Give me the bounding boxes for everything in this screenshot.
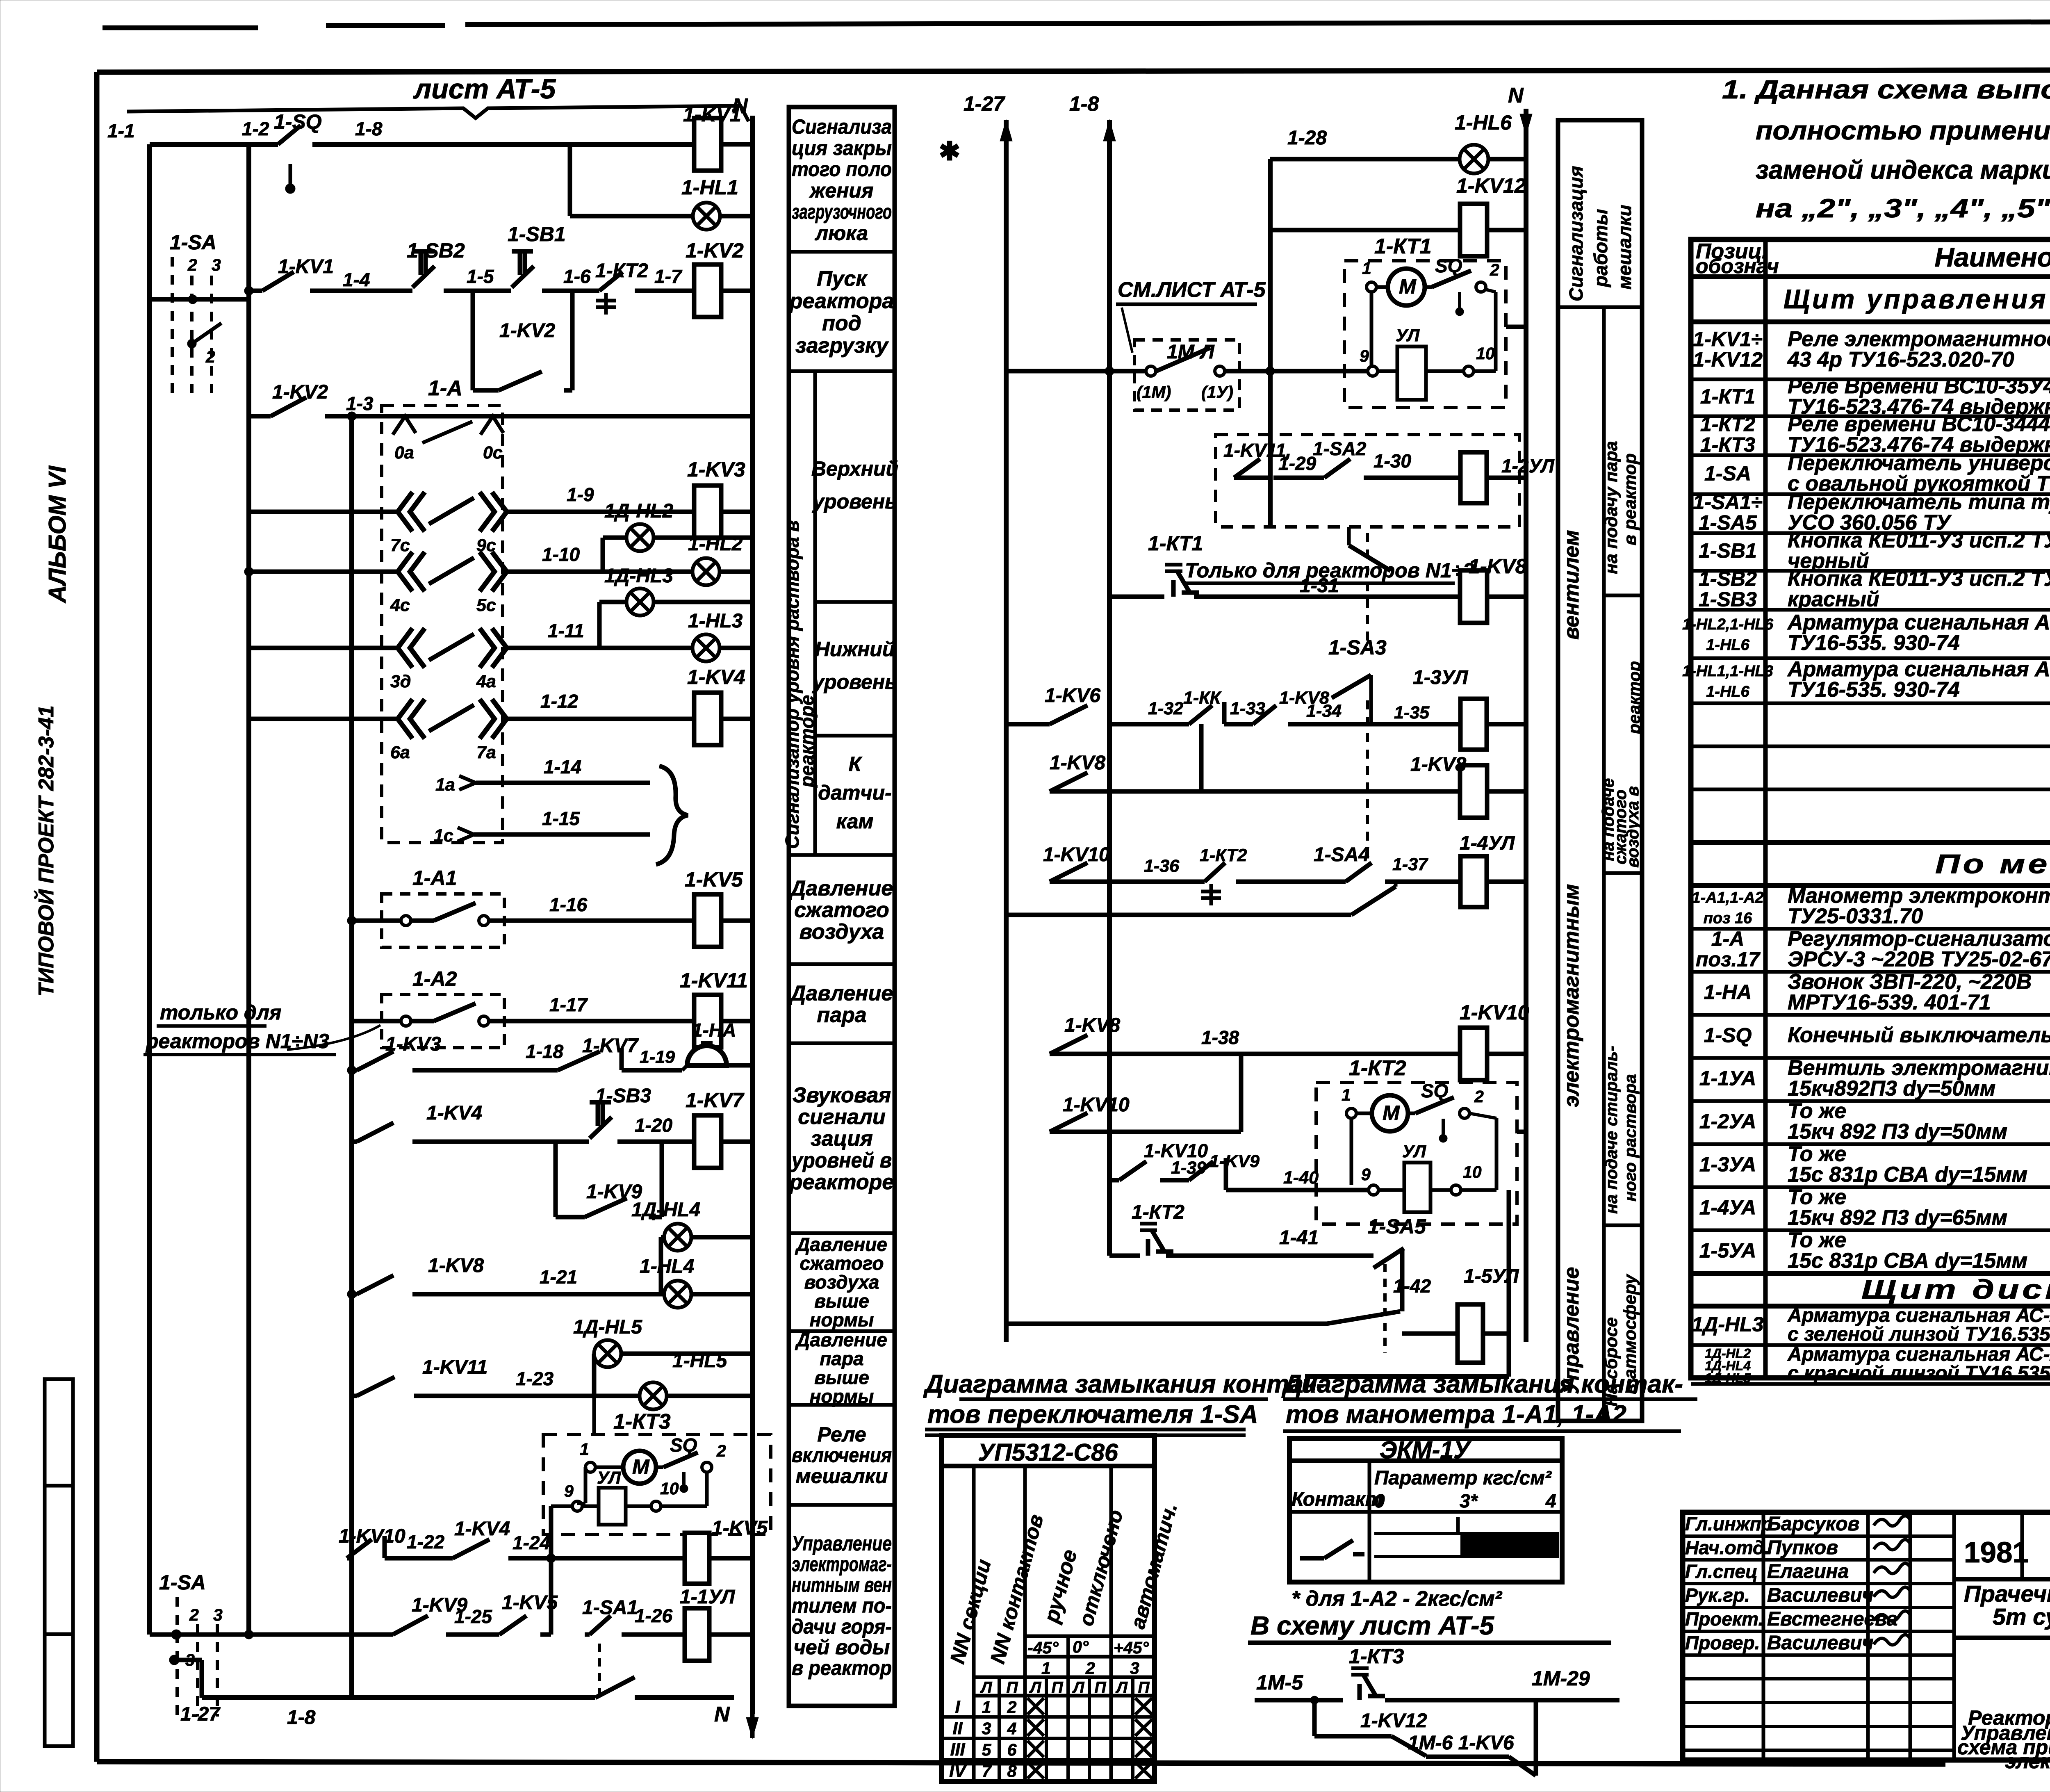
svg-text:1-А: 1-А [428, 376, 462, 400]
svg-text:вентилем: вентилем [1560, 530, 1583, 640]
svg-text:1-8: 1-8 [355, 118, 383, 139]
svg-text:1-2: 1-2 [242, 118, 269, 139]
svg-text:1-2УА: 1-2УА [1699, 1110, 1756, 1133]
title block signature columns [1762, 1512, 1765, 1760]
contact 1-KV10 M14 [1119, 1161, 1146, 1180]
svg-text:6а: 6а [390, 743, 410, 762]
svg-text:УЛ: УЛ [597, 1468, 622, 1488]
drawing frame left [94, 72, 100, 1762]
svg-text:1-34: 1-34 [1306, 701, 1342, 721]
svg-text:+45°: +45° [1114, 1638, 1149, 1657]
svg-text:того поло: того поло [792, 158, 892, 181]
svg-text:2: 2 [187, 255, 197, 274]
wire rung C [249, 414, 271, 419]
svg-text:1-1УЛ: 1-1УЛ [680, 1586, 735, 1608]
svg-text:1Д-HL3: 1Д-HL3 [1692, 1313, 1763, 1336]
svg-text:4с: 4с [390, 595, 410, 615]
lamp 1Д-HL3 [626, 588, 654, 616]
signature scribble [1874, 1587, 1911, 1597]
svg-text:1-КТ3: 1-КТ3 [1700, 433, 1755, 456]
contact 1-KT2 delayed [599, 272, 623, 291]
svg-text:Гл.спец: Гл.спец [1685, 1561, 1758, 1582]
svg-text:1-SA5: 1-SA5 [1699, 511, 1757, 534]
remote contact 1M-Л box [1134, 340, 1239, 410]
svg-text:Рук.гр.: Рук.гр. [1685, 1585, 1750, 1606]
wire rail L3 middle [1268, 159, 1273, 527]
УП table columns [972, 1466, 976, 1781]
wire coil 1-2УЛ to N [1487, 476, 1526, 480]
motor M of 1-КТ3 [623, 1451, 656, 1484]
svg-text:2: 2 [1490, 260, 1499, 279]
svg-text:1-32: 1-32 [1148, 699, 1183, 718]
svg-text:реактора: реактора [789, 289, 894, 313]
terminals 9 10 of 1-KT3 [572, 1501, 582, 1511]
svg-text:1-6: 1-6 [563, 266, 591, 287]
manometer box 1-A2 [382, 994, 504, 1048]
svg-text:1-KV12: 1-KV12 [1456, 174, 1526, 197]
svg-text:нитным вен: нитным вен [792, 1573, 892, 1596]
svg-text:загрузочного: загрузочного [792, 201, 892, 223]
svg-text:уровень: уровень [811, 490, 897, 513]
svg-text:8: 8 [1007, 1762, 1017, 1781]
svg-text:1-SA: 1-SA [1704, 462, 1751, 485]
wire rung C through box [385, 414, 750, 419]
svg-text:Реле: Реле [817, 1423, 866, 1446]
svg-text:1Д-HL2: 1Д-HL2 [604, 500, 673, 522]
svg-text:1-НА: 1-НА [692, 1019, 736, 1041]
svg-text:0а: 0а [394, 443, 414, 463]
svg-text:красный: красный [1788, 588, 1879, 611]
svg-text:1-27: 1-27 [180, 1703, 221, 1725]
relay coil 1-1УЛ [685, 1608, 709, 1661]
parts table row 1-А1,1-А2 [1691, 927, 2050, 931]
svg-text:Прачечная производительностью: Прачечная производительностью [1964, 1581, 2050, 1607]
svg-text:Василевич: Василевич [1767, 1632, 1874, 1654]
svg-text:1-KV10: 1-KV10 [1460, 1001, 1529, 1024]
svg-text:* для 1-А2 - 2кгс/см²: * для 1-А2 - 2кгс/см² [1291, 1587, 1503, 1611]
wire 1-KT3 leads [592, 1396, 596, 1434]
page top rule [102, 25, 258, 30]
lamp 1-HL3 [692, 634, 720, 661]
svg-text:Нач.отд.: Нач.отд. [1685, 1537, 1770, 1558]
text column 1 frame [789, 107, 895, 1706]
column2 divider [1602, 307, 1606, 1421]
svg-text:1-HL6: 1-HL6 [1706, 683, 1749, 700]
svg-text:1-15: 1-15 [542, 808, 580, 829]
junction dots [347, 412, 356, 421]
svg-text:2: 2 [205, 347, 215, 366]
svg-text:7с: 7с [390, 536, 410, 555]
svg-text:N: N [1508, 84, 1524, 107]
column1 box [789, 1329, 895, 1333]
svg-text:Давление: Давление [789, 877, 893, 901]
svg-text:АЛЬБОМ VI: АЛЬБОМ VI [44, 465, 71, 604]
wire rung M4 [1234, 476, 1270, 480]
svg-text:электромагнитным: электромагнитным [1560, 884, 1583, 1107]
contact 1-KV9 rung O [393, 1616, 428, 1635]
svg-text:чей воды: чей воды [794, 1636, 890, 1659]
svg-text:1-SB1: 1-SB1 [1699, 539, 1757, 562]
svg-text:1-SA1÷: 1-SA1÷ [1693, 491, 1762, 514]
contact 1-KV11 rung M4 [1234, 459, 1260, 478]
wire branch 1Д-HL5 [592, 1354, 597, 1396]
contact 1-SA4 [1346, 863, 1371, 882]
wire rung M11 crossover [1006, 913, 1351, 917]
svg-text:1-42: 1-42 [1393, 1275, 1431, 1297]
button 1-SB3 [590, 1117, 612, 1138]
wire rung D to coil [508, 510, 694, 514]
box нижний уровень [815, 734, 895, 738]
wire coil 1-KV5 to N [721, 919, 752, 923]
wire rung I [352, 1019, 404, 1024]
svg-text:люка: люка [815, 221, 868, 244]
svg-text:3: 3 [213, 1605, 223, 1624]
svg-text:1-23: 1-23 [516, 1368, 553, 1389]
relay coil 1-KV3 [694, 486, 721, 538]
svg-text:2: 2 [716, 1441, 726, 1460]
svg-text:сигнали: сигнали [798, 1105, 886, 1129]
svg-text:Нижний: Нижний [815, 638, 895, 661]
wire coil to N rung N [709, 1556, 752, 1561]
contact 1-KV8 rung L [357, 1275, 394, 1294]
parts table row 1-SA1÷ [1691, 531, 2050, 535]
wire branch 1Д-HL3 [597, 602, 602, 648]
contact 1-KV1 rung B [262, 272, 294, 291]
svg-text:1981: 1981 [1964, 1537, 2029, 1569]
wire M15 sa5 riser [1400, 1249, 1405, 1311]
svg-text:1-KV3: 1-KV3 [687, 458, 745, 481]
parts table row 1-А [1691, 970, 2050, 974]
title block year cell [1952, 1578, 1956, 1581]
contact 1-KV10 M13 [1050, 1113, 1087, 1132]
contact 1-KV2 rung C [271, 397, 306, 416]
svg-text:0с: 0с [483, 443, 503, 463]
svg-text:1-8: 1-8 [287, 1707, 316, 1728]
svg-text:15с 831р СВА dy=15мм: 15с 831р СВА dy=15мм [1788, 1249, 2027, 1273]
УП row -45 0 +45 [1025, 1635, 1155, 1638]
svg-text:1-SA: 1-SA [170, 231, 216, 254]
svg-text:сжатого: сжатого [800, 1253, 884, 1274]
svg-text:работы: работы [1590, 209, 1611, 288]
svg-text:1-SA4: 1-SA4 [1314, 844, 1369, 866]
svg-text:1-KV9: 1-KV9 [1209, 1151, 1260, 1171]
relay coil 1-KV4 [694, 693, 721, 745]
wire coil 1-KV2 to N [721, 289, 752, 293]
wire rung N [347, 1556, 352, 1561]
svg-text:1-12: 1-12 [540, 691, 578, 712]
svg-text:1-НА: 1-НА [1704, 981, 1752, 1004]
wire N return bottom middle [1507, 1190, 1511, 1377]
contact SQ of 1-KT3 [657, 1466, 663, 1469]
wire rung F level contacts 3d 4a [249, 646, 396, 650]
contact 1-SA5 [1373, 1248, 1404, 1268]
contact 1-KV3 rung J [357, 1051, 394, 1070]
wire rung M14 [1109, 1178, 1119, 1183]
svg-text:электрическая: электрическая [2005, 1750, 2050, 1773]
wire branch 1Д-HL4 [659, 1237, 663, 1294]
svg-text:реакторе: реакторе [789, 1170, 894, 1194]
svg-text:в реактор: в реактор [792, 1657, 892, 1680]
contact 1-KT1 delayed [1171, 580, 1176, 597]
box верхний уровень [815, 600, 895, 604]
svg-text:1-SB1: 1-SB1 [508, 223, 566, 246]
svg-text:1-22: 1-22 [407, 1531, 444, 1553]
svg-text:1-20: 1-20 [635, 1115, 672, 1136]
svg-text:1М-Л: 1М-Л [1167, 341, 1215, 363]
svg-text:с зеленой линзой ТУ16: с зеленой линзой ТУ16.535.426-70 [1788, 1324, 2050, 1345]
time relay 1-КТ3 box [543, 1434, 771, 1534]
svg-text:1-KV8: 1-KV8 [1050, 752, 1105, 774]
relay coil 1-KV5 rung N [685, 1533, 709, 1584]
svg-text:10: 10 [1463, 1163, 1482, 1181]
wire rung M1 lamp HL6 [1270, 157, 1460, 162]
svg-text:1-17: 1-17 [549, 994, 588, 1015]
title block signature rows [1683, 1534, 1954, 1538]
wire crossfeed 1-42 [1006, 1322, 1327, 1326]
svg-text:1-19: 1-19 [640, 1047, 675, 1067]
wire 1-SA lower to bus [150, 1632, 176, 1637]
svg-text:2: 2 [189, 1605, 199, 1624]
svg-text:1-5: 1-5 [467, 266, 494, 287]
svg-text:1-А1: 1-А1 [412, 866, 457, 889]
relay coil 1-KV5 [694, 894, 721, 947]
svg-text:1-HL1,1-HL3: 1-HL1,1-HL3 [1682, 663, 1773, 680]
svg-text:1-18: 1-18 [526, 1041, 563, 1062]
svg-text:1-KV7: 1-KV7 [582, 1035, 639, 1057]
wire N bus left ladder [750, 116, 755, 1714]
svg-text:Контакт: Контакт [1291, 1489, 1383, 1510]
svg-text:Проект.: Проект. [1685, 1608, 1763, 1630]
svg-text:пара: пара [820, 1348, 863, 1369]
svg-text:1-38: 1-38 [1201, 1027, 1239, 1048]
svg-text:1-КТ2: 1-КТ2 [1700, 413, 1755, 436]
svg-text:1-SA3: 1-SA3 [1328, 636, 1387, 659]
svg-text:1-KV2: 1-KV2 [272, 381, 328, 403]
svg-text:обознач: обознач [1696, 255, 1779, 278]
table УП5312-С86 [941, 1435, 1155, 1781]
svg-text:нормы: нормы [810, 1386, 874, 1407]
svg-text:IV: IV [949, 1761, 967, 1781]
contact 1-SA2 [1324, 459, 1350, 478]
title block frame [1683, 1512, 2050, 1760]
svg-text:1-10: 1-10 [542, 544, 580, 565]
svg-text:1-HL6: 1-HL6 [1455, 111, 1512, 134]
wire coil 1-KV10 to N [1487, 1052, 1526, 1056]
svg-text:Конечный выключатель: Конечный выключатель [1788, 1024, 2050, 1047]
svg-text:Евстегнеева: Евстегнеева [1767, 1608, 1897, 1630]
svg-text:5т сухого белья в смену: 5т сухого белья в смену [1993, 1604, 2050, 1630]
svg-text:1: 1 [580, 1440, 589, 1459]
svg-text:4а: 4а [476, 672, 496, 691]
column2 box на подаче сжатого воздуха [1604, 871, 1642, 875]
svg-text:1-SQ: 1-SQ [274, 110, 322, 133]
contact 1-KV10 M10 [1050, 863, 1087, 882]
wire coil 1-4УЛ to N [1487, 880, 1526, 884]
wire 1-SA to rails [150, 297, 249, 302]
contact 1-KV4 rung N [453, 1539, 490, 1558]
table ЭКМ-1У [1289, 1439, 1562, 1582]
column1 box [789, 1231, 895, 1235]
svg-text:SQ: SQ [1421, 1080, 1449, 1101]
parts table row empty [1691, 745, 2050, 748]
svg-text:3: 3 [212, 255, 221, 274]
svg-text:1-9: 1-9 [567, 484, 594, 505]
svg-text:3: 3 [982, 1719, 991, 1738]
svg-text:-45°: -45° [1027, 1638, 1059, 1657]
wire coil 1-3УЛ to N [1487, 722, 1526, 727]
wire KT1 to N [1506, 325, 1526, 329]
svg-text:ция закры: ция закры [792, 137, 892, 160]
signature scribble [1874, 1563, 1911, 1573]
wire coil to N M8 [1487, 789, 1526, 794]
contact 1-KV11 rung M [357, 1377, 394, 1396]
wire rung M3 feed [1006, 369, 1148, 374]
valve coil 1-5УЛ [1402, 1331, 1458, 1336]
svg-text:6: 6 [1007, 1740, 1017, 1759]
svg-text:1-41: 1-41 [1279, 1227, 1319, 1249]
svg-text:Василевич: Василевич [1767, 1585, 1874, 1606]
svg-text:Диаграмма замыкания контак-: Диаграмма замыкания контак- [923, 1370, 1325, 1398]
contact 1-KK closed [1189, 705, 1212, 724]
svg-text:1-KV12: 1-KV12 [1360, 1710, 1427, 1732]
svg-text:3д: 3д [390, 672, 411, 691]
manometer box 1-A1 [382, 894, 504, 947]
signature scribble [1874, 1539, 1911, 1550]
svg-text:(1М): (1М) [1137, 383, 1171, 401]
svg-text:1-SB3: 1-SB3 [595, 1085, 651, 1107]
wire rung M13 hold [1050, 1130, 1109, 1134]
motor M of 1-КТ2 [1372, 1095, 1408, 1131]
wire M8 to coil [1201, 789, 1460, 794]
svg-text:1-KV12: 1-KV12 [1693, 348, 1763, 371]
limit switch 1-SQ [278, 125, 301, 144]
svg-text:Провер.: Провер. [1685, 1632, 1760, 1653]
wire M13 riser [1239, 1054, 1244, 1132]
svg-text:на подаче стираль-: на подаче стираль- [1602, 1046, 1621, 1214]
svg-text:К: К [849, 752, 863, 775]
contact 1-KV8 m7 [1253, 705, 1276, 724]
svg-text:1-27: 1-27 [963, 92, 1005, 115]
svg-text:1-А1,1-А2: 1-А1,1-А2 [1692, 889, 1763, 907]
svg-text:под: под [822, 312, 861, 335]
svg-text:1-КТ1: 1-КТ1 [1700, 385, 1755, 408]
svg-text:9: 9 [1361, 1165, 1371, 1184]
svg-text:1-КК: 1-КК [1183, 688, 1222, 708]
svg-text:1-KV8: 1-KV8 [1469, 555, 1527, 578]
parts table row 1Д-HL2 [1691, 1382, 2050, 1386]
wire M8 riser [1199, 724, 1204, 791]
parts table row 1-HL2,1-HL6 [1691, 657, 2050, 660]
svg-text:на подачу пара: на подачу пара [1601, 441, 1621, 574]
valve coil 1-3УЛ [1460, 699, 1487, 750]
svg-text:электромаг-: электромаг- [792, 1553, 892, 1576]
lamp 1-HL1 [693, 203, 720, 230]
svg-text:ного раствора: ного раствора [1621, 1074, 1640, 1202]
parts table band Щит диспетчера [1691, 1271, 2050, 1276]
svg-text:УЛ: УЛ [1402, 1142, 1427, 1161]
signature scribble [1874, 1611, 1911, 1621]
svg-text:1-KV8: 1-KV8 [1410, 754, 1466, 775]
svg-text:полностью применима для реа: полностью применима для реакторов N2-5 с [1756, 116, 2050, 145]
svg-text:Елагина: Елагина [1767, 1561, 1849, 1582]
parts table row 1-КТ1 [1691, 415, 2050, 418]
svg-text:В схему лист АТ-5: В схему лист АТ-5 [1250, 1611, 1494, 1640]
svg-text:1-40: 1-40 [1283, 1168, 1319, 1188]
svg-text:1М-29: 1М-29 [1532, 1667, 1590, 1690]
mech link 1-SA1 [598, 1644, 601, 1694]
binding strip box [45, 1379, 73, 1746]
wire rung K [352, 1140, 357, 1144]
parts table frame [1691, 239, 2050, 1378]
valve group box M4 [1216, 435, 1519, 527]
svg-text:ТУ16-535. 930-74: ТУ16-535. 930-74 [1788, 678, 1960, 702]
svg-text:М: М [1399, 275, 1417, 298]
svg-text:1-HL5: 1-HL5 [672, 1350, 728, 1372]
drawing frame top [97, 70, 2050, 72]
svg-text:1-SQ: 1-SQ [1704, 1024, 1752, 1047]
svg-text:ТИПОВОЙ ПРОЕКТ 282-3-41: ТИПОВОЙ ПРОЕКТ 282-3-41 [34, 705, 58, 996]
coil УЛ of 1-KT3 [599, 1488, 626, 1525]
svg-text:1-SA: 1-SA [159, 1571, 206, 1594]
svg-text:1-SA2: 1-SA2 [1313, 438, 1367, 459]
svg-text:тилем по-: тилем по- [792, 1594, 892, 1617]
svg-text:9: 9 [1360, 347, 1369, 365]
svg-text:1-КТ2: 1-КТ2 [1200, 846, 1247, 865]
wire rung M8 [1050, 789, 1109, 794]
svg-text:включения: включения [792, 1444, 892, 1467]
svg-text:1-HL2: 1-HL2 [688, 533, 743, 555]
svg-text:уровней в: уровней в [790, 1149, 892, 1172]
svg-text:УЛ: УЛ [1396, 326, 1420, 345]
parts table row 1-2УА [1691, 1142, 2050, 1146]
svg-text:реактор: реактор [1625, 661, 1644, 734]
column1 box [789, 1503, 895, 1507]
svg-text:1-HL2,1-HL6: 1-HL2,1-HL6 [1682, 616, 1774, 633]
svg-text:кам: кам [836, 810, 874, 833]
svg-text:УП5312-С86: УП5312-С86 [978, 1439, 1118, 1466]
svg-text:Сигнализа: Сигнализа [792, 115, 892, 138]
svg-text:1: 1 [1362, 259, 1371, 278]
svg-text:МРТУ16-539. 401-71: МРТУ16-539. 401-71 [1788, 991, 1991, 1015]
svg-text:1-KV10: 1-KV10 [1063, 1094, 1130, 1116]
svg-text:По месту: По месту [1935, 849, 2050, 879]
svg-text:1-35: 1-35 [1394, 703, 1430, 723]
svg-text:15кч 892 П3 dy=50мм: 15кч 892 П3 dy=50мм [1788, 1120, 2007, 1144]
svg-text:1-11: 1-11 [548, 620, 584, 641]
svg-text:1-KV1÷: 1-KV1÷ [1693, 328, 1762, 351]
parts table row 1-SB1 [1691, 569, 2050, 573]
svg-text:1-KV2: 1-KV2 [499, 320, 555, 342]
svg-text:I: I [955, 1697, 961, 1717]
parts table row 1-HL1,1-HL3 [1691, 702, 2050, 705]
svg-text:1-1УА: 1-1УА [1699, 1067, 1756, 1090]
parts table row 1-4УА [1691, 1229, 2050, 1232]
svg-text:Наименование: Наименование [1935, 242, 2050, 272]
wire coil 1-KV3 to N [721, 510, 752, 514]
svg-text:Давление: Давление [795, 1234, 887, 1255]
column1 box [789, 1403, 895, 1407]
svg-text:0: 0 [1374, 1490, 1385, 1512]
contact 1-KV8 M12 [1050, 1035, 1087, 1054]
svg-text:загрузку: загрузку [795, 334, 889, 358]
svg-text:0°: 0° [1073, 1637, 1089, 1656]
svg-text:1-HL4: 1-HL4 [640, 1256, 694, 1277]
svg-text:1-SA5: 1-SA5 [1368, 1215, 1426, 1238]
svg-text:1-3УЛ: 1-3УЛ [1413, 667, 1468, 689]
svg-text:1-КТ3: 1-КТ3 [613, 1410, 671, 1434]
svg-text:2: 2 [1007, 1698, 1017, 1717]
svg-text:SQ: SQ [1435, 255, 1462, 276]
